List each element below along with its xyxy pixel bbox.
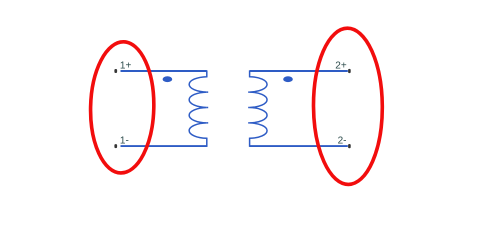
terminal pin 2- xyxy=(348,144,351,148)
wire: port 1+ to primary top xyxy=(121,70,207,72)
terminal pin 1- xyxy=(114,144,117,148)
inductor L2 secondary winding xyxy=(250,70,267,146)
terminal pin 2+ xyxy=(348,69,351,73)
annotation ellipse around port 2 xyxy=(313,28,383,185)
inductor L1 primary winding xyxy=(189,70,207,146)
polarity dot primary xyxy=(163,76,173,82)
annotation ellipse around port 1 xyxy=(89,41,155,174)
svg-text:1+: 1+ xyxy=(120,61,132,72)
wire: secondary top to port 2+ xyxy=(250,70,348,72)
wire: secondary bottom to port 2- xyxy=(250,145,348,147)
wire: port 1- to primary bottom xyxy=(121,145,207,147)
polarity dot secondary xyxy=(283,76,293,82)
svg-text:1-: 1- xyxy=(120,136,129,147)
primary winding cusp ticks xyxy=(207,92,208,123)
svg-text:2-: 2- xyxy=(338,136,347,147)
secondary winding cusp ticks xyxy=(248,92,249,123)
svg-text:2+: 2+ xyxy=(335,61,347,72)
terminal pin 1+ xyxy=(114,69,117,73)
